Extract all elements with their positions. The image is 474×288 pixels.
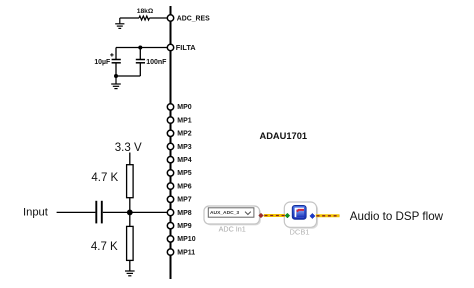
IC ADAU1701 body edge line <box>170 6 172 279</box>
wire capacitor bottoms join <box>116 75 140 77</box>
pin MP0 <box>167 104 192 111</box>
svg-text:MP2: MP2 <box>177 131 192 138</box>
svg-text:4.7 K: 4.7 K <box>91 172 118 184</box>
dropdown AUX_ADC_3 <box>208 208 254 217</box>
wire FILTA to capacitor network <box>116 47 167 49</box>
resistor 18kOhm <box>139 16 149 20</box>
block DCB1 <box>284 202 316 227</box>
ground for divider <box>125 271 135 276</box>
svg-text:MP4: MP4 <box>177 157 192 164</box>
pin MP5 <box>167 170 192 178</box>
capacitor C 10uF (polarized) <box>94 48 120 77</box>
capacitor C 100nF <box>136 48 167 77</box>
pin diamond red ADC output <box>259 213 264 218</box>
pin MP2 <box>167 130 192 138</box>
pin diamond blue DCB1 output <box>310 213 315 218</box>
svg-text:ADC In1: ADC In1 <box>219 225 246 234</box>
block ADC In1 <box>204 206 260 224</box>
wire ground to resistor 18k to pin ADC_RES <box>120 17 139 19</box>
node junction dot divider <box>127 210 133 216</box>
wire resistor upper to node <box>129 198 131 213</box>
svg-text:MP9: MP9 <box>177 223 192 230</box>
capacitor C input coupling <box>96 201 102 224</box>
svg-text:18kΩ: 18kΩ <box>137 8 154 15</box>
ground for 18k resistor <box>115 18 124 28</box>
svg-text:4.7 K: 4.7 K <box>91 241 118 253</box>
pin MP10 <box>167 236 195 244</box>
svg-text:MP11: MP11 <box>177 249 195 256</box>
pin MP3 <box>167 143 192 151</box>
resistor R 4.7K lower <box>91 226 133 260</box>
pin FILTA <box>167 43 196 52</box>
svg-text:MP0: MP0 <box>177 104 192 111</box>
pin MP11 <box>167 249 195 256</box>
svg-text:Input: Input <box>23 206 49 218</box>
pin diamond green DCB1 input <box>285 213 290 218</box>
svg-text:Audio to DSP flow: Audio to DSP flow <box>350 210 444 223</box>
pin MP7 <box>167 196 192 204</box>
wire Input to coupling capacitor <box>57 211 96 213</box>
svg-text:MP3: MP3 <box>177 144 192 151</box>
wire 3.3V to resistor R top <box>129 153 131 165</box>
svg-text:ADC_RES: ADC_RES <box>177 15 210 22</box>
ground for FILTA capacitors <box>111 76 121 89</box>
block DCB1 shadow <box>286 204 318 229</box>
wire node to resistor lower <box>129 212 131 226</box>
svg-text:10µF: 10µF <box>94 59 110 66</box>
node junction dot cap bottom <box>114 74 118 78</box>
svg-text:MP6: MP6 <box>177 183 192 190</box>
pin MP6 <box>167 183 192 190</box>
pin MP1 <box>167 117 192 125</box>
svg-text:MP1: MP1 <box>177 117 192 124</box>
pin MP8 <box>167 209 192 217</box>
svg-text:DCB1: DCB1 <box>289 228 309 237</box>
svg-text:AUX_ADC_3: AUX_ADC_3 <box>210 210 239 216</box>
svg-text:100nF: 100nF <box>146 59 167 66</box>
svg-text:ADAU1701: ADAU1701 <box>260 131 308 141</box>
icon DC source in DCB1 <box>292 206 306 220</box>
svg-text:3.3 V: 3.3 V <box>115 142 142 154</box>
svg-text:FILTA: FILTA <box>176 43 196 52</box>
svg-text:MP5: MP5 <box>177 170 192 177</box>
wire signal yellow dashed 2 <box>316 214 340 217</box>
pin MP9 <box>167 223 192 231</box>
resistor R 4.7K upper <box>91 165 133 198</box>
svg-text:MP8: MP8 <box>177 210 192 217</box>
node junction dot FILTA/100nF <box>138 46 142 50</box>
block ADC In1 shadow <box>205 207 261 225</box>
pin MP4 <box>167 157 192 165</box>
svg-text:MP10: MP10 <box>177 236 195 243</box>
wire capacitor to pin MP8 <box>103 211 168 213</box>
wire resistor lower to ground <box>129 260 131 270</box>
pin ADC_RES <box>167 15 210 23</box>
wire signal yellow dashed 1 <box>264 214 285 217</box>
svg-text:MP7: MP7 <box>177 197 192 204</box>
